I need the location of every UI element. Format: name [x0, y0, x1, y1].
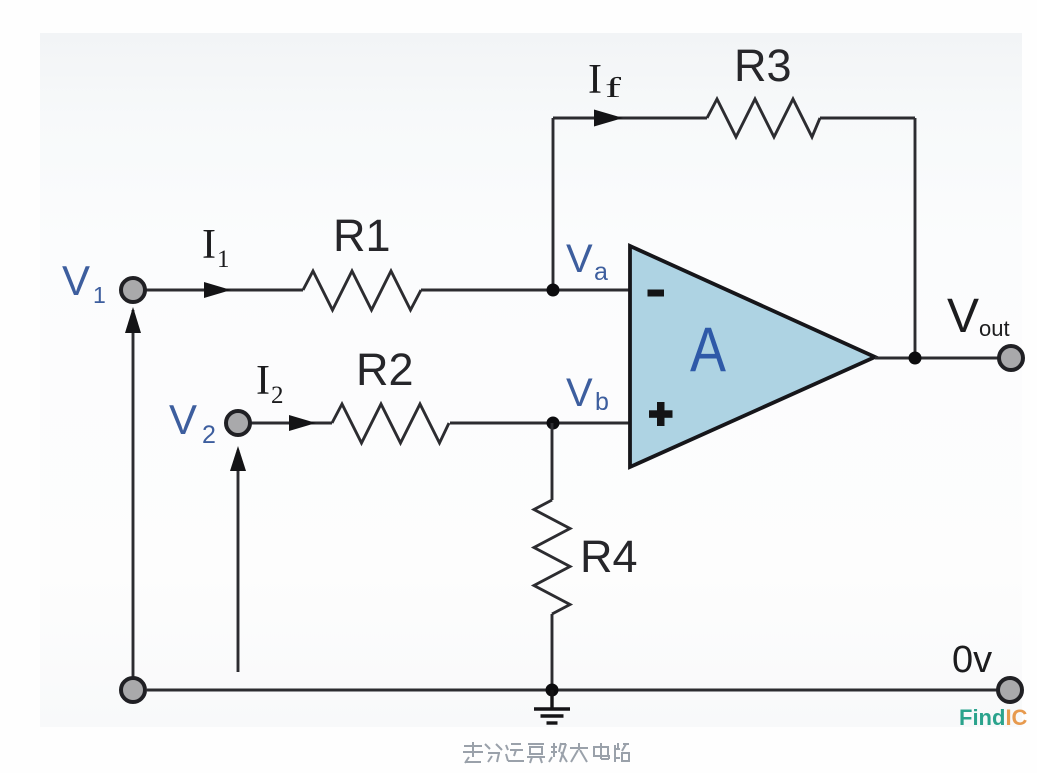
op-amp U1 triangle [630, 246, 875, 467]
svg-text:V: V [566, 237, 593, 281]
wire R4 stem bottom [551, 614, 554, 690]
svg-text:b: b [595, 388, 609, 416]
node ground junction dot [546, 684, 559, 697]
svg-text:I: I [202, 222, 216, 268]
resistor R3 [707, 99, 820, 137]
wire top feedback horizontal left segment [553, 117, 707, 120]
svg-text:out: out [979, 316, 1010, 341]
arrow If [594, 110, 623, 127]
svg-text:A: A [690, 315, 726, 385]
svg-text:V: V [947, 290, 979, 343]
terminal V1 [121, 278, 145, 302]
wire V1 row left [146, 289, 303, 292]
wire V1 row right [421, 289, 630, 292]
arrow up toward V2 [230, 446, 246, 471]
wire V1 ground stem [132, 310, 135, 677]
wire V2 arrow stem [237, 450, 240, 672]
terminal V2 [226, 411, 250, 435]
svg-text:f: f [605, 73, 622, 104]
resistor R2 [332, 404, 449, 443]
wire feedback vertical left (node Va to top) [552, 118, 555, 290]
wire feedback vertical right (top to output node) [914, 118, 917, 358]
wire top feedback horizontal right segment [820, 117, 915, 120]
arrow I2 [289, 415, 316, 431]
arrow up toward V1 [125, 307, 141, 333]
svg-text:V: V [169, 396, 197, 443]
wire V2 row left [251, 422, 332, 425]
resistor R4 [534, 500, 570, 614]
wire output [875, 357, 999, 360]
terminal Vout [999, 346, 1023, 370]
svg-text:0v: 0v [952, 639, 992, 681]
svg-text:a: a [594, 258, 608, 286]
svg-text:I: I [588, 57, 602, 103]
wire bottom rail [147, 689, 999, 692]
svg-text:R2: R2 [356, 344, 414, 395]
svg-text:1: 1 [93, 282, 106, 308]
svg-text:1: 1 [217, 246, 230, 273]
op-amp plus input sign [657, 402, 665, 426]
svg-text:2: 2 [271, 382, 284, 409]
wire V2 row right [450, 422, 630, 425]
svg-text:R3: R3 [734, 40, 792, 91]
resistor R1 [303, 271, 421, 310]
terminal bottom right 0v [998, 678, 1022, 702]
wire R4 stem top [551, 423, 554, 500]
svg-text:R4: R4 [580, 531, 638, 582]
node Vb junction dot [547, 417, 560, 430]
svg-text:I: I [256, 358, 270, 404]
op-amp minus input sign [648, 290, 665, 297]
svg-text:V: V [566, 371, 593, 415]
svg-text:FindIC: FindIC [959, 705, 1028, 730]
terminal bottom left [121, 678, 145, 702]
caption 差分运算放大电路 (approximated strokes) [463, 742, 629, 763]
arrow I1 [204, 282, 231, 298]
node Va junction dot [547, 284, 560, 297]
svg-text:2: 2 [202, 421, 216, 449]
svg-text:R1: R1 [333, 210, 391, 261]
svg-text:V: V [62, 257, 90, 304]
node output junction dot [909, 352, 922, 365]
ground symbol [534, 690, 570, 723]
